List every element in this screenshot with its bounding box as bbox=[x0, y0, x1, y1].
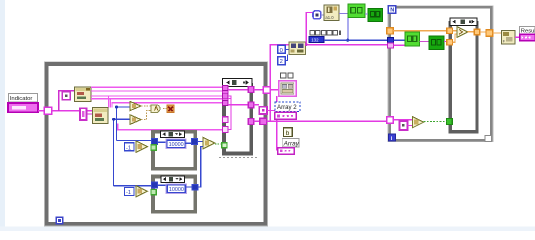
case structure S2 frame bbox=[153, 177, 195, 212]
bottom pale strip bbox=[0, 227, 535, 232]
svg-text:-1: -1 bbox=[126, 145, 131, 151]
count terminal N bbox=[388, 6, 395, 14]
wire compare2 to And gate bbox=[141, 111, 151, 120]
tunnel F1 right orange bbox=[486, 30, 493, 37]
wire long pink to For loop bbox=[266, 120, 388, 122]
increment node row2 bbox=[136, 186, 147, 197]
tunnel S2 left green bbox=[151, 189, 156, 194]
subVI green box3 bbox=[405, 32, 420, 46]
wire C1 inner stub bbox=[228, 98, 231, 100]
wire S1 inside left bbox=[157, 141, 166, 143]
wire riser b bbox=[109, 99, 111, 108]
wire blue terminal to For loop bbox=[324, 39, 388, 41]
wire C1 inner vertical bbox=[228, 96, 231, 130]
wire pink inside F1 bbox=[393, 44, 404, 46]
boolean-ish small icon (rounded blue) bbox=[313, 11, 321, 19]
wire orange inside F1 bbox=[393, 30, 448, 32]
wire blue branch 1 (VI B out to compare 1 and down) bbox=[115, 106, 151, 141]
iteration terminal i of F1 bbox=[389, 134, 396, 142]
tunnel F1 left orange bbox=[387, 28, 394, 34]
wire tunnel mid to vertical bbox=[267, 109, 277, 111]
svg-text:10000: 10000 bbox=[169, 142, 184, 148]
wire C1 out mid bbox=[254, 104, 260, 106]
wire S1 inside right bbox=[185, 142, 191, 144]
tunnel C1 left boolean bbox=[222, 143, 227, 148]
tunnel S1 right blue bbox=[191, 139, 197, 145]
tunnel C1 left low bbox=[223, 127, 228, 133]
tunnel W1 left (Indicator in) bbox=[44, 107, 51, 114]
increment node row1 bbox=[136, 141, 147, 152]
constant 10000 (row2) bbox=[166, 184, 186, 193]
wire C1 inside mid bbox=[228, 104, 249, 106]
local variable cancel icon bbox=[279, 81, 297, 97]
wire D to VI B bbox=[86, 113, 92, 115]
subVI icon B (scan string 2) bbox=[93, 108, 108, 124]
wire bundle L4 bbox=[91, 98, 223, 100]
wire const 0 to index array bbox=[285, 48, 289, 50]
tunnel S2 left blue bbox=[151, 182, 157, 188]
svg-text:Indicator: Indicator bbox=[10, 96, 33, 102]
svg-text:-1: -1 bbox=[126, 190, 131, 196]
wire gate to stop bbox=[163, 108, 167, 110]
wire bundle L5 bbox=[112, 103, 223, 108]
resize handle F1 bbox=[485, 135, 492, 141]
wire vertical x270 to index array bbox=[270, 45, 289, 122]
svg-text:10000: 10000 bbox=[169, 187, 184, 193]
tunnel F1 left blue bbox=[387, 38, 393, 43]
wire orange to result VI bbox=[493, 32, 502, 34]
tunnel F1 left pink bbox=[387, 43, 393, 48]
wire pink to compare F1 bbox=[393, 119, 412, 121]
wire to F1 right tunnel bbox=[480, 31, 486, 33]
junction dot bbox=[305, 43, 308, 46]
wire S2 inside left bbox=[157, 184, 167, 186]
wire box3 to box4 bbox=[420, 41, 429, 43]
wire const 2 to index array bbox=[285, 55, 287, 61]
tunnel C2 left green (bottom) bbox=[446, 119, 452, 125]
wire vertical right of loop bbox=[276, 96, 278, 150]
wire C1 out low bbox=[254, 120, 266, 122]
conversion VI (number to string) bbox=[501, 30, 515, 43]
wire blue branch 2 (VI B out to compare 2 and down) bbox=[112, 118, 151, 186]
svg-text:0: 0 bbox=[280, 48, 283, 54]
wire small icon to VI T bbox=[321, 14, 324, 16]
subVI icon T (top converter) bbox=[324, 5, 339, 21]
constant 0 bbox=[278, 45, 286, 54]
constant D box (string) bbox=[80, 108, 86, 120]
wire vertical from blue wire up to box1 bbox=[347, 14, 349, 41]
constant empty array (pink) bbox=[399, 121, 407, 130]
svg-text:N: N bbox=[390, 8, 394, 14]
tunnels C1 left column bbox=[223, 85, 228, 105]
label numeric control (CJK) bbox=[309, 30, 341, 36]
wire bundle L2 bbox=[91, 90, 223, 92]
case C1 selector label bbox=[222, 79, 252, 87]
svg-text:Resul: Resul bbox=[521, 28, 535, 34]
wire bundle L3 bbox=[91, 95, 223, 97]
tunnel C1 left mid bbox=[223, 117, 228, 123]
svg-text:a1.0: a1.0 bbox=[325, 15, 334, 20]
svg-text:132: 132 bbox=[311, 37, 319, 42]
comparison node F1 bottom bbox=[412, 117, 423, 128]
constant 1 (row2) bbox=[124, 188, 134, 196]
terminal Indicator (string control) bbox=[8, 103, 38, 112]
junction dot blue bbox=[346, 39, 349, 42]
tunnel W1 right low bbox=[260, 118, 267, 124]
tunnel F1 left pink bottom bbox=[387, 117, 393, 123]
tunnel C2 left orange low bbox=[447, 39, 453, 45]
wire VI T to green box1 bbox=[339, 13, 348, 15]
wire C1 inside top bbox=[228, 89, 249, 91]
comparison node row1 out bbox=[203, 137, 215, 148]
wire branch up to scan VI A bbox=[59, 91, 75, 111]
left pale strip bbox=[0, 0, 5, 231]
wire box1 to box2 bbox=[365, 13, 368, 15]
constant 2 bbox=[278, 57, 286, 66]
wire magenta long to case tunnel low bbox=[118, 123, 223, 129]
svg-text:Array: Array bbox=[283, 140, 300, 147]
wire const to compare bbox=[408, 124, 413, 126]
case S1 selector bbox=[160, 131, 184, 137]
wire vertical up to express pair bbox=[306, 13, 313, 45]
wire blue inside F1 bbox=[393, 39, 404, 41]
label Array 2 bbox=[275, 102, 300, 112]
case structure C1 frame bbox=[224, 85, 251, 154]
case structure S1 frame bbox=[153, 132, 195, 169]
subVI green box4 (dark) bbox=[429, 36, 444, 50]
wire main pink inside loop bbox=[52, 110, 93, 112]
wire bundle L1 bbox=[91, 86, 223, 88]
wire C2 out bbox=[468, 31, 475, 33]
comparison node C2 bbox=[457, 27, 468, 38]
case C2 selector bbox=[450, 18, 477, 25]
index array node bbox=[289, 42, 306, 55]
terminal Array 2 bbox=[275, 112, 296, 119]
label Result bbox=[520, 27, 535, 35]
svg-text:b: b bbox=[286, 130, 290, 137]
wire result VI to terminal bbox=[515, 36, 520, 38]
subVI green box1 bbox=[348, 4, 365, 18]
label cancel (local variable) bbox=[280, 72, 296, 79]
svg-text:2: 2 bbox=[280, 59, 283, 65]
comparison node 2 bbox=[130, 115, 141, 125]
case S2 selector bbox=[161, 176, 185, 182]
wire tunnel to local variable bbox=[270, 89, 278, 91]
constant b bbox=[284, 128, 293, 137]
label Indicator bbox=[9, 94, 38, 103]
wire Indicator to tunnel bbox=[38, 110, 45, 112]
wire green dashed to C1 tunnel bbox=[215, 143, 222, 145]
wire green dashed to C2 tunnel bbox=[424, 120, 447, 122]
terminal Array bbox=[278, 148, 294, 154]
constant 10000 (row1) bbox=[166, 139, 186, 148]
constant boxA (array const) bbox=[62, 92, 70, 100]
constant 1 (row1) bbox=[124, 143, 134, 151]
comparison node 1 bbox=[130, 102, 141, 111]
wire index array out (magenta to For loop) bbox=[306, 44, 388, 46]
tunnel C2 right orange bbox=[474, 29, 480, 35]
case structure C2 frame bbox=[450, 23, 477, 132]
wire C1 out top to W1 tunnel bbox=[254, 89, 264, 91]
wire C2 inside dogleg bbox=[453, 34, 458, 42]
wire S2 inside right bbox=[185, 186, 192, 188]
for loop F1 border bbox=[388, 6, 493, 142]
tunnel C2 left orange top bbox=[447, 28, 453, 34]
wire riser a bbox=[108, 96, 110, 108]
tunnel S1 left green bbox=[151, 145, 156, 150]
tunnel S1 left blue bbox=[151, 139, 157, 145]
stop node (orange square) bbox=[167, 105, 174, 112]
And gate bbox=[151, 105, 160, 113]
wire S1 out bbox=[197, 141, 203, 143]
label Array bbox=[282, 138, 299, 147]
subVI green box2 (dark) bbox=[368, 8, 383, 21]
iteration terminal i of loop W1 bbox=[56, 217, 63, 223]
tunnels C1 right column bbox=[248, 87, 253, 125]
terminal numeric I32 bbox=[309, 37, 324, 43]
wire S2 out up to comparison bbox=[198, 146, 203, 187]
terminal Result bbox=[520, 34, 535, 40]
tunnel W1 right mid (box with dot) bbox=[259, 107, 267, 114]
wire C2 inside top bbox=[453, 30, 458, 32]
subVI icon A (scan string) bbox=[75, 87, 92, 102]
selection marquee dashes below case C1 bbox=[219, 157, 258, 159]
tunnel W1 right top (hollow) bbox=[263, 87, 270, 94]
wire box4 to case C2 bbox=[444, 41, 449, 43]
tunnel S2 right blue bbox=[192, 184, 198, 190]
wire compare1 to And gate bbox=[141, 105, 151, 107]
svg-text:Array 2: Array 2 bbox=[277, 104, 297, 111]
while loop W1 border bbox=[45, 62, 268, 226]
